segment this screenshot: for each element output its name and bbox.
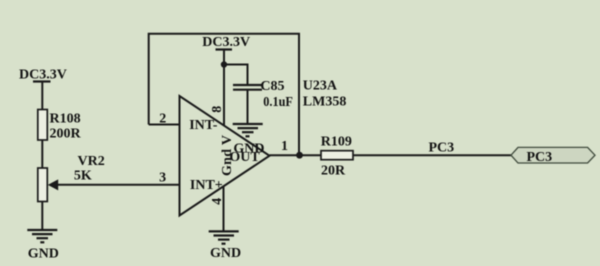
svg-text:U23A: U23A [303,79,338,94]
svg-text:DC3.3V: DC3.3V [19,68,67,83]
svg-text:R109: R109 [321,134,352,149]
svg-text:8: 8 [210,106,225,113]
power bar symbol (left DC3.3V) [33,80,51,82]
power bar symbol (top DC3.3V) [216,48,233,50]
svg-text:GND: GND [210,246,241,261]
svg-text:INT+: INT+ [190,178,223,193]
svg-text:0.1uF: 0.1uF [263,95,293,110]
wire op-amp pin 4 to ground [223,186,225,231]
wire VR2 wiper to op-amp pin 3 [55,184,180,186]
wire R109 to port PC3 [353,154,512,156]
svg-text:3: 3 [159,170,166,185]
svg-text:200R: 200R [50,127,82,142]
port PC3 [511,147,595,163]
svg-text:INT-: INT- [189,118,218,133]
svg-text:20R: 20R [321,164,346,179]
wire VR2 to ground [41,202,43,231]
ground symbol (pin 4) [209,231,239,243]
potentiometer VR2 body [38,168,48,202]
svg-text:PC3: PC3 [429,141,455,156]
svg-text:1: 1 [281,139,288,154]
svg-text:DC3.3V: DC3.3V [202,35,250,50]
svg-text:C85: C85 [260,79,284,94]
wiper arrow of VR2 [48,179,58,190]
ground symbol (left) [27,230,57,242]
capacitor C85 plates [233,84,262,86]
ground symbol (under C85) [233,124,263,136]
svg-text:2: 2 [159,111,166,126]
junction node (output/feedback) [296,152,303,159]
junction node (power/cap branch) [221,61,227,67]
wire from left power bar to R108 [41,82,43,111]
svg-text:5K: 5K [74,169,92,184]
svg-text:LM358: LM358 [303,94,347,109]
svg-text:R108: R108 [50,112,81,127]
op-amp U23A triangle [180,96,270,216]
svg-text:PC3: PC3 [527,150,553,165]
wire op-amp output to R109 [270,154,322,156]
svg-text:OUT: OUT [229,150,260,165]
feedback loop wire (pin2 to output node) [149,34,299,155]
wire capacitor to ground [247,90,249,124]
wire loop to op-amp pin 2 [149,124,180,126]
svg-text:VR2: VR2 [78,154,105,169]
wire R108 to VR2 [41,140,43,169]
wire power bar to op-amp pin 8 [223,50,225,126]
resistor R109 body [321,151,353,160]
wire junction to capacitor C85 [224,65,248,86]
resistor R108 body [38,110,48,141]
svg-text:GND: GND [28,246,59,261]
